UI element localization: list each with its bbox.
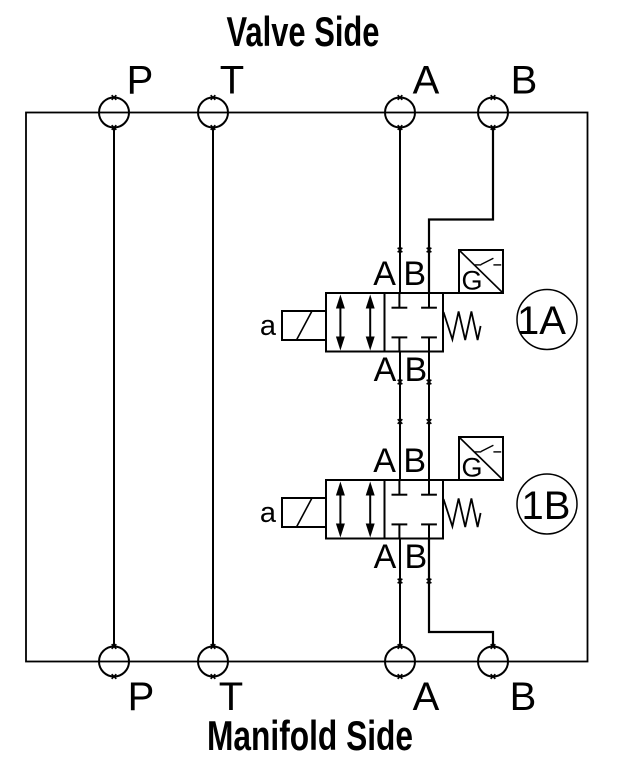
port A top circle [385, 98, 415, 128]
wire T vertical [212, 128, 214, 647]
spring 1A [444, 312, 481, 341]
svg-text:Valve Side: Valve Side [227, 8, 380, 55]
gauge port G (1A) [444, 250, 504, 296]
svg-text:A: A [373, 442, 396, 480]
svg-text:B: B [405, 538, 428, 576]
port T top circle [198, 98, 228, 128]
svg-text:A: A [373, 255, 396, 293]
svg-text:a: a [260, 310, 277, 342]
wire A between valves [399, 352, 401, 481]
x seal marks at port circles [112, 95, 496, 679]
valve 1A body [326, 293, 443, 352]
x marks on B branch line [427, 248, 432, 253]
wire B between valves [428, 352, 430, 481]
port B top circle [478, 98, 508, 128]
svg-text:P: P [127, 59, 154, 103]
wire A bottom segment [399, 539, 401, 647]
wire P vertical [113, 128, 115, 647]
port T bottom circle [198, 647, 228, 677]
svg-text:A: A [413, 675, 440, 719]
svg-text:T: T [220, 59, 244, 103]
valve 1A [260, 250, 577, 389]
valve 1B body [326, 480, 443, 539]
wire A top segment [399, 128, 401, 294]
valve 1A closed port stubs [392, 293, 437, 352]
svg-text:Manifold Side: Manifold Side [207, 712, 413, 759]
svg-text:B: B [405, 351, 428, 389]
svg-text:B: B [510, 675, 537, 719]
spring 1B [444, 499, 481, 528]
port P bottom circle [99, 647, 129, 677]
solenoid a (1B) [282, 498, 326, 527]
svg-text:a: a [260, 497, 277, 529]
wire B bottom segment with jog [429, 539, 493, 647]
port A bottom circle [385, 647, 415, 677]
gauge port G (1B) [444, 437, 504, 483]
valve 1B closed port stubs [392, 480, 437, 539]
svg-text:B: B [511, 59, 538, 103]
solenoid a (1A) [282, 311, 326, 340]
manifold outline border [26, 113, 588, 662]
valve 1B flow arrows [336, 482, 375, 538]
svg-text:T: T [219, 675, 243, 719]
station tag 1B [517, 474, 577, 534]
svg-text:1B: 1B [522, 484, 571, 528]
port B bottom circle [478, 647, 508, 677]
svg-text:A: A [413, 59, 440, 103]
port P top circle [99, 98, 129, 128]
svg-text:G: G [461, 266, 482, 296]
valve 1A flow arrows [336, 295, 375, 351]
x marks on A line [398, 248, 403, 253]
station tag 1A [517, 290, 577, 350]
svg-text:B: B [403, 442, 426, 480]
valve 1B [260, 437, 577, 576]
svg-text:P: P [128, 675, 155, 719]
svg-text:G: G [461, 453, 482, 483]
svg-text:A: A [374, 538, 397, 576]
wire B top segment with jog [429, 128, 493, 294]
svg-text:B: B [403, 255, 426, 293]
svg-text:1A: 1A [517, 299, 566, 343]
svg-text:A: A [374, 351, 397, 389]
